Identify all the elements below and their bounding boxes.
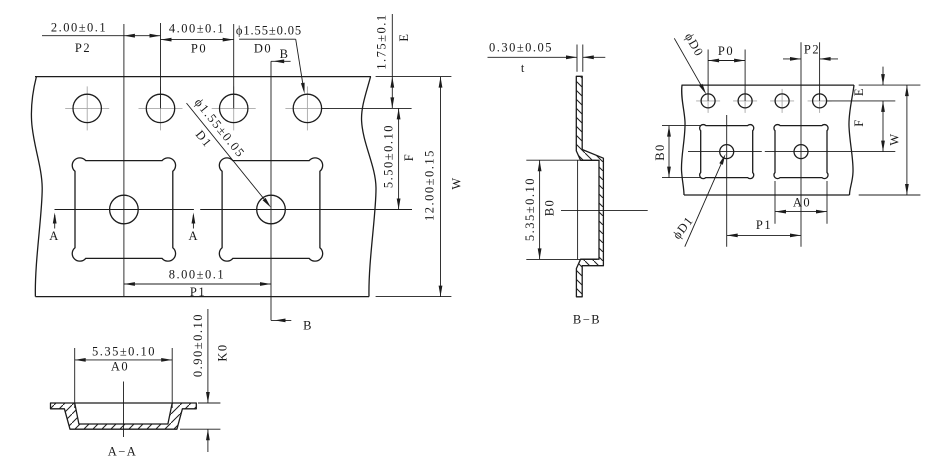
label K0 (rotated) (216, 343, 230, 361)
dimension F value 5.50±0.10 (rotated) (382, 124, 396, 188)
sprocket hole 4 (right view) (813, 94, 827, 108)
D0 leader line (right view) (674, 38, 706, 94)
section A right arrow (192, 213, 196, 229)
sprocket hole 1 centerlines (right view) (696, 89, 720, 113)
A0 extension lines (A-A) (75, 348, 173, 408)
dimension A0 line (A-A) (75, 358, 173, 362)
svg-text:F: F (852, 118, 866, 126)
svg-text:B0: B0 (653, 143, 667, 161)
B0 extension lines (right view) (662, 126, 701, 178)
pocket row centerline right segment (200, 209, 412, 211)
label D1 (rotated) (193, 128, 215, 151)
label A0 (right view) (793, 196, 811, 210)
label P1 (right view) (756, 218, 772, 232)
carrier tape right break edge (right view) (849, 85, 854, 195)
A-A pocket centerline (123, 382, 125, 438)
svg-text:B0: B0 (543, 199, 557, 217)
svg-text:5.35±0.10: 5.35±0.10 (523, 177, 537, 241)
label A-A (108, 445, 138, 459)
svg-text:A: A (49, 229, 60, 243)
svg-text:0.30±0.05: 0.30±0.05 (489, 41, 553, 55)
dimension P0 line (161, 38, 234, 42)
pocket row centerline (A-A cutting line) (55, 209, 194, 211)
D1 leader line (187, 103, 272, 208)
dimension D0 value Ø1.55±0.05 (236, 24, 302, 38)
svg-text:12.00±0.15: 12.00±0.15 (423, 149, 437, 221)
dimension P2 value 2.00±0.1 (51, 21, 107, 35)
D0 leader line (296, 39, 305, 94)
dimension B0 line (right view) (667, 126, 671, 178)
dimension K0 value 0.90±0.10 (rotated) (191, 313, 205, 377)
label F (rotated) (402, 153, 416, 161)
svg-text:E: E (852, 87, 866, 96)
svg-text:A−A: A−A (108, 445, 138, 459)
top edge extension (right view) (859, 84, 921, 86)
sprocket hole 1 (right view) (701, 94, 715, 108)
sprocket hole 3 (right view) (775, 94, 789, 108)
dimension K0 line (206, 309, 210, 452)
carrier tape left break edge (left view) (31, 77, 42, 297)
label F (rotated, right view) (852, 118, 866, 126)
svg-text:W: W (450, 176, 464, 189)
section line B-B vertical (270, 61, 272, 320)
dimension t line (488, 55, 606, 59)
sprocket hole 4 (D0) (293, 94, 321, 122)
label B (bottom) (303, 319, 313, 333)
svg-text:B: B (280, 47, 290, 61)
section B top arrow (271, 59, 291, 63)
carrier tape bottom edge (right view) (684, 194, 850, 196)
dimension F line (397, 108, 401, 209)
dimension E line (right view) (881, 67, 885, 112)
dimension P0 value 4.00±0.1 (169, 22, 225, 36)
label t (521, 61, 526, 75)
dimension E line (390, 14, 394, 108)
label W (rotated) (450, 176, 464, 189)
sprocket hole 2 extension (right view) (744, 50, 746, 101)
svg-text:A0: A0 (793, 196, 811, 210)
sprocket hole 2 centerlines (right view) (733, 89, 757, 113)
sprocket row extension line to E/F dims (322, 107, 412, 109)
B0 top extension line (B-B) (526, 159, 595, 161)
K0 top extension line (198, 402, 220, 404)
svg-text:P1: P1 (756, 218, 772, 232)
dimension P2 line (42, 34, 161, 38)
sprocket row extension line (right view) (827, 100, 896, 102)
label P2 (right view) (804, 43, 820, 57)
sprocket hole 2 centerlines (139, 86, 183, 130)
svg-text:W: W (888, 132, 902, 145)
pocket 1 center hole (D1) (110, 195, 139, 224)
D1 leader line (right view) (685, 154, 726, 247)
svg-text:0.90±0.10: 0.90±0.10 (191, 313, 205, 377)
t dimension extension lines (577, 45, 583, 72)
label A0 (A-A) (111, 360, 129, 374)
label W (rotated, right view) (888, 132, 902, 145)
label D0 (254, 42, 272, 56)
svg-text:1.75±0.1: 1.75±0.1 (375, 13, 389, 69)
label P1 (190, 285, 206, 299)
label B (top) (280, 47, 290, 61)
sprocket hole 3 centerlines (212, 86, 256, 130)
svg-text:B: B (303, 319, 313, 333)
sprocket hole 1 centerlines (65, 86, 109, 130)
pocket 1 outline (right view) (700, 125, 754, 179)
B-B section tape profile (hatched) (576, 76, 603, 296)
sprocket hole 3 (D0) (220, 94, 248, 122)
svg-text:F: F (402, 153, 416, 161)
svg-text:P2: P2 (804, 43, 820, 57)
pocket 2 center vertical / P2-A0-P1 extension (right view) (800, 42, 802, 246)
dimension W value 12.00±0.15 (rotated) (423, 149, 437, 221)
pocket 1 center vertical (right view) (726, 115, 728, 247)
dimension A0 value 5.35±0.10 (92, 345, 156, 359)
label P0 (right view) (718, 44, 734, 58)
pocket 2 center hole (D1) (257, 195, 286, 224)
carrier tape left break edge (right view) (681, 85, 685, 195)
svg-text:2.00±0.1: 2.00±0.1 (51, 21, 107, 35)
label A (left) (49, 229, 60, 243)
dimension B0 line (B-B) (538, 160, 542, 259)
svg-text:8.00±0.1: 8.00±0.1 (169, 267, 225, 281)
svg-text:P0: P0 (191, 42, 207, 56)
dimension P1 line (right view) (727, 234, 801, 238)
pocket row centerline (right view) (688, 151, 895, 153)
svg-text:4.00±0.1: 4.00±0.1 (169, 22, 225, 36)
svg-text:5.50±0.10: 5.50±0.10 (382, 124, 396, 188)
dimension W line (right view) (905, 85, 909, 195)
sprocket hole 4 centerlines (right view) (808, 89, 832, 113)
label E (rotated) (397, 32, 411, 41)
dimension t value 0.30±0.05 (489, 41, 553, 55)
pocket 1 centerline vertical / P2-P1 extension line (123, 24, 125, 297)
carrier tape right break edge (left view) (362, 77, 376, 297)
label P2 (75, 41, 91, 55)
svg-text:A: A (189, 229, 200, 243)
pocket 1 center hole (right view) (720, 145, 734, 159)
svg-text:5.35±0.10: 5.35±0.10 (92, 345, 156, 359)
svg-text:t: t (521, 61, 526, 75)
sprocket hole 4 extension (right view) (819, 42, 821, 101)
svg-text:P1: P1 (190, 285, 206, 299)
B-B section web projection line (577, 160, 579, 259)
dimension P0 line (right view) (708, 59, 745, 63)
sprocket hole 1 (D0) (73, 94, 101, 122)
label B0 (B-B, rotated) (543, 199, 557, 217)
label B0 (rotated, right view) (653, 143, 667, 161)
svg-text:A0: A0 (111, 360, 129, 374)
label ØD0 (rotated, right view) (682, 31, 707, 60)
pocket 1 outline (72, 158, 175, 261)
svg-text:E: E (397, 32, 411, 41)
pocket 2 center hole (right view) (794, 145, 808, 159)
svg-text:K0: K0 (216, 343, 230, 361)
sprocket hole 3 extension line (233, 24, 235, 108)
sprocket hole 4 centerlines (285, 86, 329, 130)
dimension B0 value 5.35±0.10 (rotated) (523, 177, 537, 241)
svg-text:P2: P2 (75, 41, 91, 55)
svg-text:ϕ1.55±0.05: ϕ1.55±0.05 (236, 24, 302, 38)
carrier tape top edge (right view) (682, 84, 855, 86)
dimension D1 value Ø1.55±0.05 (rotated) (192, 96, 248, 161)
svg-text:D0: D0 (254, 42, 272, 56)
sprocket hole 1 extension (right view) (707, 50, 709, 101)
dimension P2 line (right view) (783, 57, 838, 61)
sprocket hole 2 (right view) (738, 94, 752, 108)
dimension W line (439, 77, 443, 297)
dimension A0 line (right view) (775, 210, 827, 214)
A0 extension lines (right view) (775, 181, 827, 224)
dimension F line (right view) (881, 101, 885, 152)
bottom edge extension line for W (376, 296, 452, 298)
label ØD1 (rotated, right view) (670, 214, 696, 242)
dimension P1 line (124, 282, 271, 286)
top edge extension line for E/W (376, 76, 452, 78)
pocket 2 outline (right view) (774, 125, 828, 179)
sprocket hole 2 (D0) (146, 94, 174, 122)
dimension E value 1.75±0.1 (rotated) (375, 13, 389, 69)
carrier tape bottom edge (left view) (35, 296, 369, 298)
B-B pocket centerline (561, 209, 648, 211)
sprocket hole 3 centerlines (right view) (770, 89, 794, 113)
label B-B (573, 313, 601, 327)
B0 bottom extension line (B-B) (526, 258, 597, 260)
section A left arrow (53, 213, 57, 229)
label A (right) (189, 229, 200, 243)
sprocket hole 2 extension line (160, 23, 162, 108)
dimension P1 value 8.00±0.1 (169, 267, 225, 281)
svg-text:B−B: B−B (573, 313, 601, 327)
carrier tape top edge (left view) (35, 76, 371, 78)
A-A section pocket profile (hatched) (51, 403, 197, 429)
label P0 (191, 42, 207, 56)
bottom edge extension (right view) (859, 194, 921, 196)
label E (rotated, right view) (852, 87, 866, 96)
section B bottom arrow (271, 319, 291, 323)
K0 bottom extension line (180, 428, 220, 430)
D0 leader shelf (239, 38, 296, 40)
pocket 2 outline (219, 158, 322, 261)
svg-text:P0: P0 (718, 44, 734, 58)
